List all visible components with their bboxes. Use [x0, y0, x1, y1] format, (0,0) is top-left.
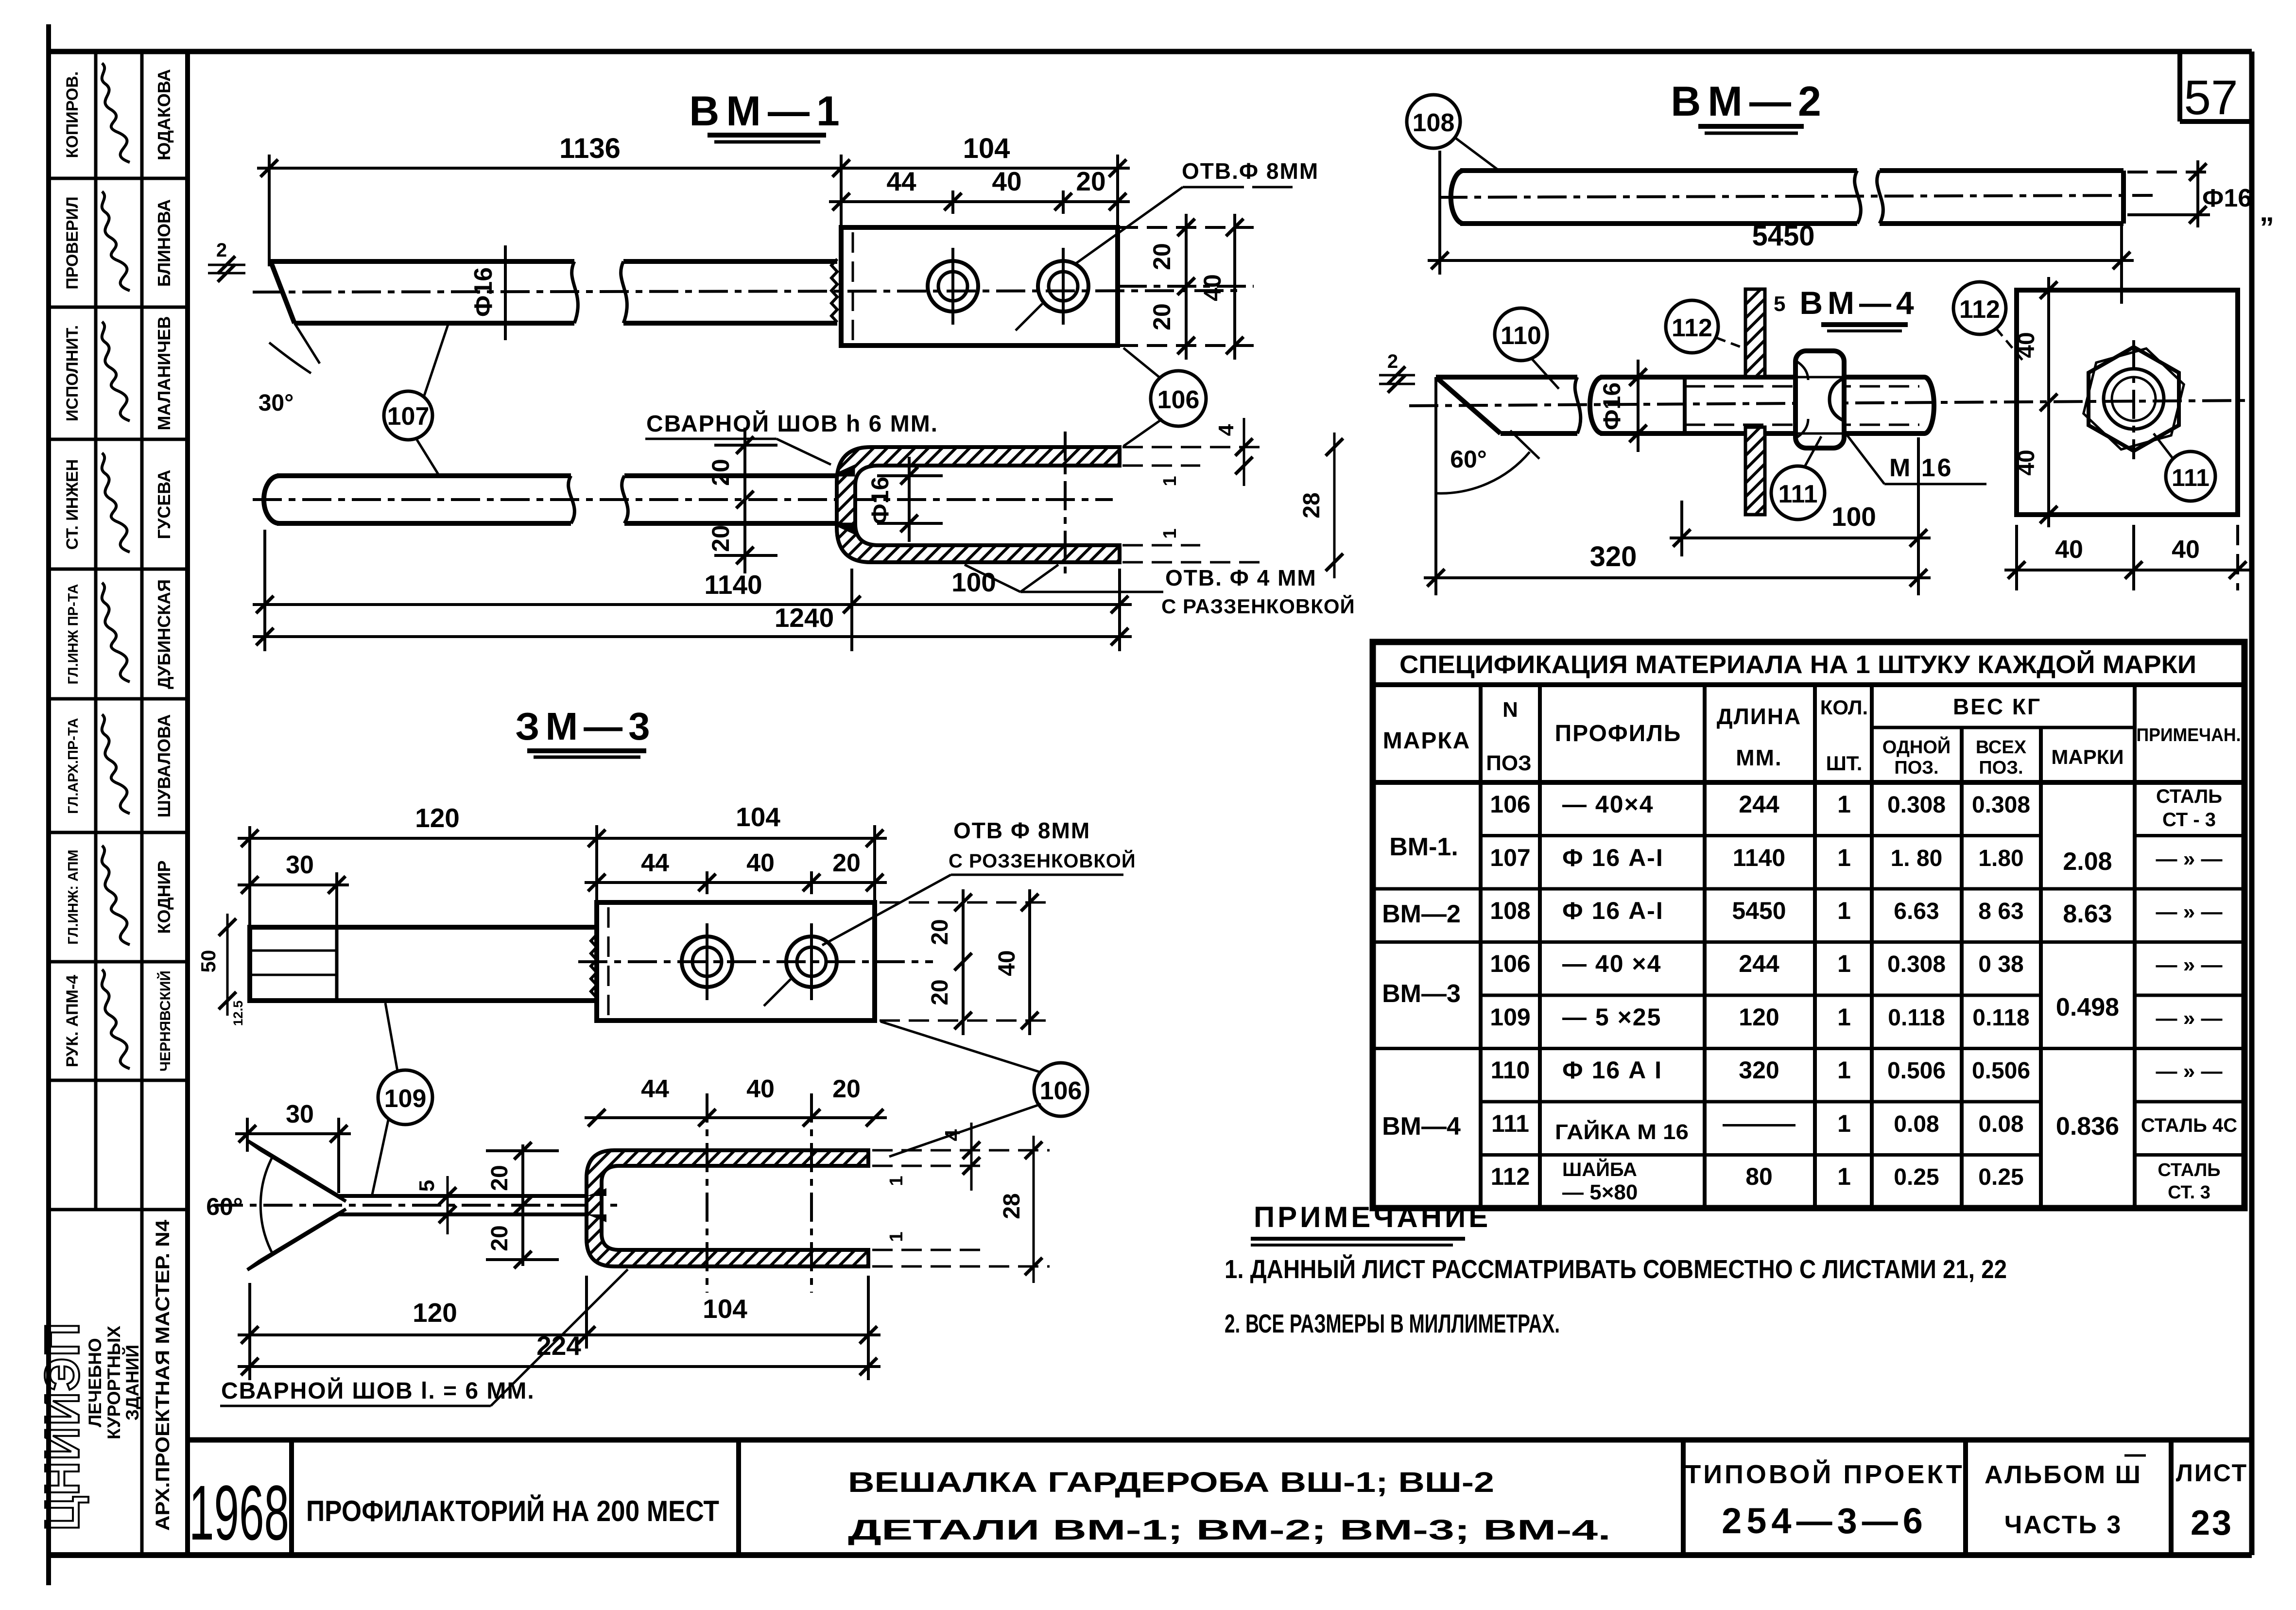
svg-text:1: 1 [1160, 528, 1180, 538]
svg-text:ЮДАКОВА: ЮДАКОВА [154, 69, 174, 160]
svg-text:1. ДАННЫЙ ЛИСТ РАССМАТРИВА: 1. ДАННЫЙ ЛИСТ РАССМАТРИВАТЬ СОВМЕСТНО С… [1225, 1254, 2007, 1284]
svg-text:ШАЙБА: ШАЙБА [1562, 1158, 1637, 1180]
svg-text:ЗМ—3: ЗМ—3 [515, 705, 656, 748]
ZM-3 extensions [248, 826, 251, 932]
svg-text:80: 80 [1745, 1163, 1773, 1190]
svg-text:———: ——— [1723, 1110, 1795, 1137]
svg-text:12.5: 12.5 [231, 1001, 245, 1026]
svg-text:320: 320 [1590, 541, 1637, 572]
balloon 112 left [1666, 300, 1718, 353]
svg-text:120: 120 [415, 803, 460, 833]
ZM-3 bottom dims 120/104/224 [238, 1333, 880, 1336]
svg-text:40: 40 [746, 1075, 775, 1103]
svg-text:109: 109 [384, 1085, 427, 1113]
svg-text:112: 112 [1491, 1163, 1530, 1190]
svg-text:20: 20 [707, 459, 734, 486]
VM-2 f16 dim [2127, 171, 2210, 173]
svg-text:1: 1 [1837, 1004, 1851, 1031]
svg-text:ЛЕЧЕБНО: ЛЕЧЕБНО [85, 1338, 105, 1427]
svg-text:40: 40 [994, 950, 1020, 976]
svg-text:ПОЗ.: ПОЗ. [1979, 758, 2023, 778]
svg-text:ПРОВЕРИЛ: ПРОВЕРИЛ [63, 196, 82, 289]
svg-text:100: 100 [951, 567, 996, 597]
svg-text:5: 5 [1774, 292, 1785, 316]
svg-text:1240: 1240 [775, 603, 834, 633]
svg-text:КОЛ.: КОЛ. [1820, 696, 1868, 719]
svg-text:ДУБИНСКАЯ: ДУБИНСКАЯ [154, 579, 174, 689]
svg-text:0.506: 0.506 [1972, 1058, 2030, 1084]
svg-text:40: 40 [2014, 450, 2039, 475]
VM-2 rod segment 1 [1451, 171, 1463, 224]
svg-text:120: 120 [413, 1298, 457, 1328]
dim 320 [1434, 537, 1437, 595]
svg-text:0.308: 0.308 [1887, 792, 1946, 818]
svg-text:4: 4 [1214, 424, 1238, 436]
svg-text:1140: 1140 [1733, 844, 1785, 871]
svg-text:44: 44 [886, 166, 916, 196]
balloon 111 right [2166, 451, 2215, 501]
ZM-3 lower view: Y-fork bar [338, 1194, 603, 1198]
svg-text:— » —: — » — [2156, 847, 2223, 871]
svg-text:КОПИРОВ.: КОПИРОВ. [63, 71, 82, 158]
svg-text:СТАЛЬ 4С: СТАЛЬ 4С [2141, 1115, 2237, 1136]
svg-text:100: 100 [1831, 502, 1876, 532]
svg-text:ВМ—4: ВМ—4 [1382, 1112, 1461, 1141]
svg-text:СТ. ИНЖЕН: СТ. ИНЖЕН [63, 459, 82, 550]
svg-text:ПРИМЕЧАНИЕ: ПРИМЕЧАНИЕ [1254, 1201, 1491, 1233]
svg-text:ВМ—2: ВМ—2 [1382, 900, 1461, 928]
svg-text:40: 40 [2055, 536, 2083, 564]
svg-text:— 5×80: — 5×80 [1562, 1180, 1638, 1204]
M16 label [1847, 434, 1884, 484]
svg-text:1.80: 1.80 [1978, 846, 2023, 871]
60 degree angle [1434, 377, 1437, 537]
weld zigzag at plate [831, 259, 837, 322]
stamp column grid [94, 52, 98, 1210]
balloon 106 [1151, 371, 1206, 426]
VM-1 rod 107 top view [271, 259, 574, 264]
svg-text:ДЛИНА: ДЛИНА [1717, 704, 1802, 729]
svg-text:28: 28 [999, 1193, 1025, 1219]
svg-text:ГЛ.ИНЖ ПР-ТА: ГЛ.ИНЖ ПР-ТА [66, 584, 81, 685]
svg-text:4: 4 [941, 1129, 965, 1141]
svg-text:СПЕЦИФИКАЦИЯ МАТЕРИАЛА НА 1: СПЕЦИФИКАЦИЯ МАТЕРИАЛА НА 1 ШТУКУ КАЖДОЙ… [1399, 650, 2196, 679]
svg-text:0.506: 0.506 [1887, 1058, 1946, 1084]
svg-text:СВАРНОЙ ШОВ l. = 6 ММ.: СВАРНОЙ ШОВ l. = 6 ММ. [221, 1377, 535, 1404]
svg-text:224: 224 [536, 1331, 581, 1361]
svg-text:ВСЕХ: ВСЕХ [1976, 737, 2027, 758]
svg-text:8.63: 8.63 [2063, 900, 2112, 928]
svg-text:ЦНИИЭП: ЦНИИЭП [35, 1322, 89, 1531]
svg-text:Ф16: Ф16 [866, 477, 894, 524]
svg-text:20: 20 [487, 1225, 513, 1251]
svg-text:Ф16: Ф16 [469, 267, 498, 317]
svg-text:С РОЗЗЕНКОВКОЙ: С РОЗЗЕНКОВКОЙ [949, 849, 1136, 872]
svg-text:44: 44 [641, 849, 669, 877]
svg-text:ВЕС КГ: ВЕС КГ [1953, 694, 2041, 719]
svg-text:108: 108 [1413, 109, 1455, 137]
svg-text:СВАРНОЙ ШОВ h 6 ММ.: СВАРНОЙ ШОВ h 6 ММ. [646, 410, 938, 437]
svg-text:ВМ—4: ВМ—4 [1799, 285, 1918, 321]
svg-text:20: 20 [832, 1075, 861, 1103]
svg-text:ВМ—2: ВМ—2 [1671, 78, 1828, 125]
Y arms [247, 1141, 339, 1196]
svg-text:МАРКИ: МАРКИ [2051, 745, 2123, 768]
VM-1 dim 1136 and 104 [257, 167, 1130, 170]
plate 106 top view [841, 227, 1118, 346]
inner 40/40 dim [2047, 277, 2050, 527]
svg-text:60°: 60° [206, 1193, 243, 1220]
svg-text:ПОЗ.: ПОЗ. [1894, 758, 1938, 778]
svg-text:Ф16: Ф16 [1598, 382, 1625, 430]
svg-text:ВЕШАЛКА ГАРДЕРОБА ВШ-1; В: ВЕШАЛКА ГАРДЕРОБА ВШ-1; ВШ-2 [848, 1467, 1494, 1498]
svg-text:АРХ.ПРОЕКТНАЯ МАСТЕР. N4: АРХ.ПРОЕКТНАЯ МАСТЕР. N4 [152, 1219, 173, 1531]
svg-text:244: 244 [1739, 950, 1779, 977]
VM-1 fork section (bent plate 106) [837, 447, 1120, 562]
svg-text:23: 23 [2191, 1504, 2233, 1542]
bolt 110 second part [1590, 377, 1603, 433]
svg-text:— » —: — » — [2156, 900, 2223, 924]
leader otv 8mm s rozzenkovkoy [822, 875, 951, 945]
svg-text:ОТВ. Ф 4 ММ: ОТВ. Ф 4 ММ [1165, 565, 1317, 590]
leader otv 4mm [965, 565, 1020, 592]
svg-text:ЛИСТ: ЛИСТ [2176, 1459, 2248, 1487]
svg-text:112: 112 [1959, 295, 2000, 324]
svg-text:1: 1 [1837, 791, 1851, 818]
svg-text:40: 40 [2014, 332, 2039, 358]
svg-text:АЛЬБОМ Ш: АЛЬБОМ Ш [1985, 1461, 2142, 1489]
svg-text:Ф16: Ф16 [2202, 184, 2252, 212]
svg-text:Ф 16 А I: Ф 16 А I [1562, 1056, 1662, 1084]
svg-text:5450: 5450 [1732, 897, 1786, 924]
svg-text:109: 109 [1490, 1004, 1530, 1031]
svg-text:20: 20 [927, 919, 953, 945]
svg-text:ГАЙКА М 16: ГАЙКА М 16 [1555, 1119, 1689, 1144]
VM-1 fork 20/20 dim [743, 428, 746, 573]
svg-text:0.118: 0.118 [1972, 1005, 2029, 1031]
svg-text:57: 57 [2184, 70, 2238, 125]
svg-text:СТ - 3: СТ - 3 [2162, 809, 2216, 831]
sheet number box 57 [2177, 52, 2182, 121]
svg-text:ГУСЕВА: ГУСЕВА [154, 469, 174, 539]
VM-1 angle 30 [294, 323, 320, 364]
svg-text:ЗДАНИЙ: ЗДАНИЙ [122, 1345, 142, 1420]
svg-text:2.08: 2.08 [2063, 848, 2112, 876]
svg-text:ОДНОЙ: ОДНОЙ [1882, 736, 1951, 758]
svg-text:104: 104 [736, 802, 780, 832]
svg-text:106: 106 [1490, 791, 1530, 818]
svg-text:50: 50 [197, 950, 220, 973]
svg-text:8 63: 8 63 [1978, 899, 2023, 924]
svg-text:120: 120 [1739, 1004, 1779, 1031]
svg-text:20: 20 [707, 525, 734, 552]
svg-text:МАЛАНИЧЕВ: МАЛАНИЧЕВ [154, 316, 174, 431]
svg-text:ВМ-1.: ВМ-1. [1389, 833, 1458, 861]
svg-text:— » —: — » — [2156, 1059, 2223, 1083]
dim 30 lower [235, 1132, 351, 1135]
svg-text:20: 20 [927, 979, 953, 1005]
svg-text:44: 44 [641, 1075, 669, 1103]
ZM-3 plate right dims [880, 901, 1050, 904]
svg-text:30: 30 [286, 851, 314, 879]
svg-text:60°: 60° [1450, 446, 1487, 473]
svg-text:ДЕТАЛИ ВМ-1; ВМ-2; ВМ-3;: ДЕТАЛИ ВМ-1; ВМ-2; ВМ-3; ВМ-4. [848, 1514, 1611, 1546]
svg-text:ОТВ Ф 8ММ: ОТВ Ф 8ММ [953, 818, 1090, 843]
svg-text:6.63: 6.63 [1894, 899, 1939, 924]
balloon 108 [1407, 95, 1460, 148]
hole 1 [928, 261, 978, 312]
svg-text:110: 110 [1501, 322, 1541, 350]
nut 111 side [1795, 351, 1844, 448]
svg-text:20: 20 [1148, 243, 1175, 270]
VM-1 f16 label [504, 245, 507, 340]
svg-text:0.25: 0.25 [1894, 1164, 1939, 1190]
svg-text:СТАЛЬ: СТАЛЬ [2156, 786, 2222, 807]
svg-text:N: N [1502, 698, 1518, 722]
VM-1 dim 44 40 20 [829, 200, 1130, 203]
dim 100 [1680, 501, 1683, 556]
svg-text:0.308: 0.308 [1887, 952, 1946, 977]
svg-text:112: 112 [1672, 314, 1712, 342]
svg-text:111: 111 [1778, 480, 1817, 508]
svg-text:40: 40 [992, 166, 1021, 196]
balloon 106 for ZM-3 [1034, 1063, 1088, 1116]
VM-1 fork vertical axis [1064, 432, 1067, 579]
dim 44 over fork [585, 1116, 887, 1119]
svg-text:1. 80: 1. 80 [1891, 846, 1943, 871]
svg-text:108: 108 [1490, 897, 1530, 924]
spec table [1373, 642, 2244, 1208]
svg-text:30°: 30° [259, 390, 294, 416]
svg-text:0 38: 0 38 [1978, 952, 2023, 977]
ZM-3 fork right dims [872, 1149, 1050, 1152]
balloon 111 [1771, 466, 1825, 519]
VM-2 rod segment 2 [1877, 171, 1883, 224]
svg-text:111: 111 [1491, 1110, 1529, 1137]
svg-text:КУРОРТНЫХ: КУРОРТНЫХ [104, 1326, 124, 1439]
svg-text:2. ВСЕ РАЗМЕРЫ В МИЛЛИМЕТР: 2. ВСЕ РАЗМЕРЫ В МИЛЛИМЕТРАХ. [1225, 1309, 1560, 1338]
60 deg arc [260, 1156, 273, 1255]
svg-text:1140: 1140 [704, 570, 762, 600]
svg-text:ГЛ.АРХ.ПР-ТА: ГЛ.АРХ.ПР-ТА [66, 718, 81, 814]
svg-text:„: „ [2260, 195, 2274, 227]
svg-text:КОДНИР: КОДНИР [154, 860, 174, 934]
svg-text:0.498: 0.498 [2056, 993, 2119, 1021]
svg-text:РУК. АПМ-4: РУК. АПМ-4 [63, 975, 82, 1067]
svg-text:320: 320 [1739, 1056, 1779, 1084]
svg-text:ЧЕРНЯВСКИЙ: ЧЕРНЯВСКИЙ [157, 970, 173, 1072]
svg-text:5: 5 [415, 1180, 439, 1192]
svg-text:111: 111 [2172, 464, 2210, 491]
svg-text:ЧАСТЬ 3: ЧАСТЬ 3 [2004, 1511, 2123, 1539]
hole 2 (otv 8mm) [1038, 261, 1088, 312]
svg-text:104: 104 [703, 1294, 747, 1324]
svg-text:СТ. 3: СТ. 3 [2168, 1182, 2210, 1203]
svg-text:106: 106 [1490, 950, 1530, 977]
balloon 112 right [1953, 282, 2006, 334]
svg-text:106: 106 [1157, 386, 1200, 414]
VM-1 fork right dims 4/1/28/1 [1122, 446, 1263, 449]
ZM-3 fork section [587, 1150, 868, 1266]
VM-4 square washer view [2017, 290, 2238, 515]
svg-text:— » —: — » — [2156, 953, 2223, 977]
svg-text:1968: 1968 [189, 1469, 289, 1556]
svg-text:ШТ.: ШТ. [1826, 752, 1863, 775]
svg-text:ПОЗ: ПОЗ [1486, 751, 1531, 775]
svg-text:Ф 16 А-I: Ф 16 А-I [1562, 897, 1664, 924]
svg-text:ПРОФИЛЬ: ПРОФИЛЬ [1555, 721, 1682, 746]
svg-text:2: 2 [216, 240, 227, 261]
svg-text:30: 30 [286, 1100, 314, 1128]
VM-4 rod 110 [1436, 375, 1577, 380]
svg-text:0.08: 0.08 [1894, 1111, 1939, 1137]
svg-text:1: 1 [886, 1231, 907, 1242]
svg-text:106: 106 [1040, 1077, 1082, 1105]
svg-text:ГЛ.ИНЖ: АПМ: ГЛ.ИНЖ: АПМ [66, 849, 81, 944]
svg-text:0.836: 0.836 [2056, 1112, 2119, 1141]
hex nut plan [2089, 347, 2179, 451]
svg-text:1: 1 [1160, 476, 1180, 486]
svg-text:1: 1 [886, 1176, 907, 1186]
frame border [46, 24, 51, 1585]
svg-text:— 5 ×25: — 5 ×25 [1562, 1004, 1661, 1031]
weld fillets rod/fork [832, 466, 854, 476]
svg-text:ММ.: ММ. [1736, 745, 1782, 770]
svg-text:28: 28 [1299, 492, 1325, 518]
svg-text:ТИПОВОЙ ПРОЕКТ: ТИПОВОЙ ПРОЕКТ [1685, 1459, 1965, 1489]
svg-text:0.25: 0.25 [1978, 1164, 2023, 1190]
svg-text:107: 107 [1490, 844, 1530, 871]
svg-text:254—3—6: 254—3—6 [1722, 1501, 1928, 1541]
leader otv 8mm [1074, 187, 1183, 265]
svg-text:1: 1 [1837, 950, 1851, 977]
svg-text:1: 1 [1837, 1163, 1851, 1190]
svg-text:20: 20 [487, 1165, 513, 1191]
ZM-3 bar 109 top view [250, 927, 597, 1001]
VM-2 dim 5450 [1438, 151, 1441, 275]
svg-text:ВМ—3: ВМ—3 [1382, 980, 1461, 1008]
svg-text:1: 1 [1837, 1110, 1851, 1137]
svg-text:— » —: — » — [2156, 1006, 2223, 1030]
svg-text:Ф 16 А-I: Ф 16 А-I [1562, 844, 1664, 871]
title block [188, 1437, 2252, 1443]
VM-1 plate right dims 20 20 40 [1118, 226, 1254, 229]
ZM-3 dim 30 and 44/40/20 [238, 883, 349, 886]
svg-text:ПРИМЕЧАН.: ПРИМЕЧАН. [2137, 725, 2241, 745]
svg-text:— 40×4: — 40×4 [1562, 791, 1654, 818]
svg-text:2: 2 [1387, 351, 1398, 372]
hole axes in fork [706, 1093, 708, 1293]
svg-text:20: 20 [1148, 303, 1175, 330]
VM-1 lower rod 107 [264, 476, 279, 523]
bottom 40/40 dim [2015, 525, 2018, 590]
svg-text:20: 20 [832, 849, 861, 877]
svg-text:МАРКА: МАРКА [1383, 728, 1471, 754]
svg-text:104: 104 [963, 133, 1010, 164]
svg-text:1: 1 [1837, 844, 1851, 871]
svg-text:С РАЗЗЕНКОВКОЙ: С РАЗЗЕНКОВКОЙ [1161, 594, 1355, 618]
ZM-3 dim 120/104 top [238, 837, 887, 840]
svg-text:ПРОФИЛАКТОРИЙ НА 200 МЕСТ: ПРОФИЛАКТОРИЙ НА 200 МЕСТ [306, 1495, 719, 1527]
svg-text:40: 40 [2172, 536, 2200, 564]
svg-text:40: 40 [1199, 274, 1226, 301]
svg-text:ИСПОЛНИТ.: ИСПОЛНИТ. [63, 325, 82, 421]
svg-text:ВМ—1: ВМ—1 [689, 88, 846, 135]
svg-text:СТАЛЬ: СТАЛЬ [2158, 1160, 2220, 1180]
svg-text:110: 110 [1491, 1056, 1530, 1084]
svg-text:БЛИНОВА: БЛИНОВА [154, 199, 174, 287]
balloon 107 [384, 391, 432, 440]
VM-1 bottom dims 1140/100/1240 [253, 603, 1132, 606]
svg-text:244: 244 [1739, 791, 1779, 818]
svg-text:ШУВАЛОВА: ШУВАЛОВА [154, 714, 174, 818]
svg-text:5450: 5450 [1752, 220, 1814, 252]
svg-text:ОТВ.Ф 8ММ: ОТВ.Ф 8ММ [1182, 158, 1319, 184]
svg-text:1136: 1136 [559, 133, 621, 164]
svg-text:40: 40 [746, 849, 775, 877]
svg-text:1: 1 [1837, 897, 1851, 924]
ZM-3 bar left dims 50/12.5 [226, 914, 229, 1016]
balloon 109 [378, 1070, 432, 1125]
VM-1 extension lines [268, 155, 271, 266]
thickness 5 dim [447, 1176, 449, 1234]
svg-text:1: 1 [1837, 1056, 1851, 1084]
ZM-3 plate 106 top view [597, 902, 875, 1021]
svg-text:— 40 ×4: — 40 ×4 [1562, 950, 1661, 977]
balloon 110 [1495, 308, 1547, 361]
washer 112 strip [1745, 289, 1765, 377]
20/20 dim lower [521, 1144, 524, 1266]
svg-text:0.308: 0.308 [1972, 792, 2030, 818]
svg-text:20: 20 [1076, 166, 1105, 196]
svg-text:0.118: 0.118 [1888, 1005, 1945, 1031]
svg-text:107: 107 [387, 402, 430, 431]
svg-text:0.08: 0.08 [1978, 1111, 2023, 1137]
svg-text:М 16: М 16 [1889, 454, 1953, 482]
